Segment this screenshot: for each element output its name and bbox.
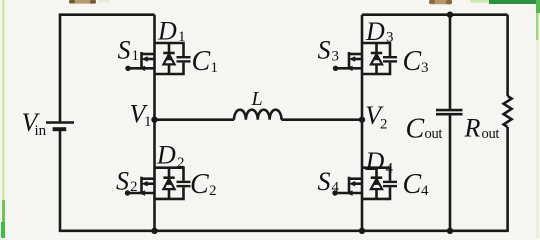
- wire: inductor to V2: [282, 118, 363, 121]
- MOSFET S1: [125, 52, 154, 71]
- battery V_in: [46, 123, 74, 130]
- capacitor C4: [383, 182, 397, 186]
- box around D2/C2: [155, 168, 184, 199]
- label S1: [118, 36, 140, 65]
- top-right green stripe: [470, 0, 540, 13]
- svg-text:4: 4: [332, 180, 340, 196]
- svg-text:in: in: [35, 123, 47, 139]
- svg-text:C: C: [406, 114, 425, 145]
- svg-text:4: 4: [421, 183, 429, 199]
- svg-text:C: C: [192, 46, 211, 77]
- top-middle brown artifact: [429, 0, 452, 4]
- svg-text:S: S: [318, 167, 331, 196]
- label R_out: [464, 114, 500, 143]
- label S3: [318, 36, 340, 65]
- label S4: [318, 167, 340, 196]
- svg-text:2: 2: [177, 155, 185, 171]
- svg-text:D: D: [365, 17, 385, 46]
- diode D4: [371, 168, 382, 199]
- svg-text:1: 1: [144, 114, 152, 130]
- diode D2: [163, 168, 174, 199]
- box around D3/C3: [362, 43, 390, 74]
- svg-text:S: S: [116, 167, 129, 196]
- svg-text:out: out: [425, 126, 443, 142]
- MOSFET S4: [332, 177, 362, 196]
- label V_in: [22, 108, 47, 139]
- svg-text:C: C: [403, 46, 422, 77]
- svg-text:D: D: [365, 147, 385, 176]
- node V1 junction dot: [151, 117, 157, 123]
- MOSFET S2: [125, 177, 155, 196]
- svg-text:D: D: [157, 17, 177, 46]
- label D2: [156, 141, 185, 172]
- label V1: [130, 100, 152, 131]
- label S2: [116, 167, 138, 196]
- wire: bottom rail: [59, 230, 509, 233]
- label D3: [365, 17, 394, 46]
- svg-text:3: 3: [386, 30, 394, 46]
- svg-text:2: 2: [380, 117, 388, 133]
- label D4: [365, 147, 394, 177]
- wire: battery bottom to bottom rail: [59, 129, 62, 231]
- right edge stripe: [536, 0, 539, 238]
- label C2: [190, 169, 217, 200]
- wire: right leg: [361, 15, 364, 231]
- capacitor C2: [177, 182, 191, 186]
- wire: V1 to inductor: [155, 118, 235, 121]
- left edge green stripe: [1, 0, 5, 238]
- box around D1/C1: [155, 43, 184, 74]
- svg-text:3: 3: [421, 60, 429, 76]
- svg-text:3: 3: [332, 49, 340, 65]
- svg-text:1: 1: [132, 48, 140, 64]
- junction dot bottom left leg: [151, 228, 157, 234]
- svg-text:out: out: [482, 126, 500, 142]
- junction dot bottom right leg: [359, 228, 365, 234]
- label C1: [192, 46, 219, 77]
- svg-text:2: 2: [209, 183, 217, 199]
- wire: top-right rail: [362, 13, 508, 16]
- diode D3: [371, 43, 382, 74]
- MOSFET S3: [333, 52, 362, 71]
- diode D1: [163, 43, 174, 74]
- capacitor C1: [177, 57, 191, 61]
- svg-text:R: R: [464, 114, 481, 143]
- label C3: [403, 46, 429, 77]
- svg-text:D: D: [156, 141, 176, 170]
- resistor R_out: [504, 15, 512, 231]
- svg-text:1: 1: [211, 60, 219, 76]
- svg-text:1: 1: [178, 29, 186, 45]
- capacitor C3: [383, 57, 397, 61]
- svg-text:2: 2: [130, 179, 138, 195]
- top-left brown artifact: [69, 0, 110, 4]
- label D1: [157, 17, 186, 46]
- label C4: [403, 169, 430, 200]
- junction dot bottom C_out: [447, 228, 453, 234]
- box around D4/C4: [362, 168, 390, 199]
- svg-text:S: S: [318, 36, 331, 65]
- inductor L: [234, 110, 282, 120]
- capacitor C_out: [436, 15, 463, 231]
- node V2 junction dot: [359, 117, 365, 123]
- svg-text:C: C: [403, 169, 422, 200]
- svg-text:L: L: [251, 88, 263, 110]
- wire: left leg: [153, 15, 156, 231]
- svg-text:4: 4: [386, 161, 394, 177]
- junction dot top C_out: [447, 12, 453, 18]
- svg-text:S: S: [118, 36, 131, 65]
- svg-text:C: C: [190, 169, 209, 200]
- label V2: [365, 101, 387, 133]
- wire: top-left rail and battery top: [60, 15, 155, 123]
- label C_out: [406, 114, 443, 145]
